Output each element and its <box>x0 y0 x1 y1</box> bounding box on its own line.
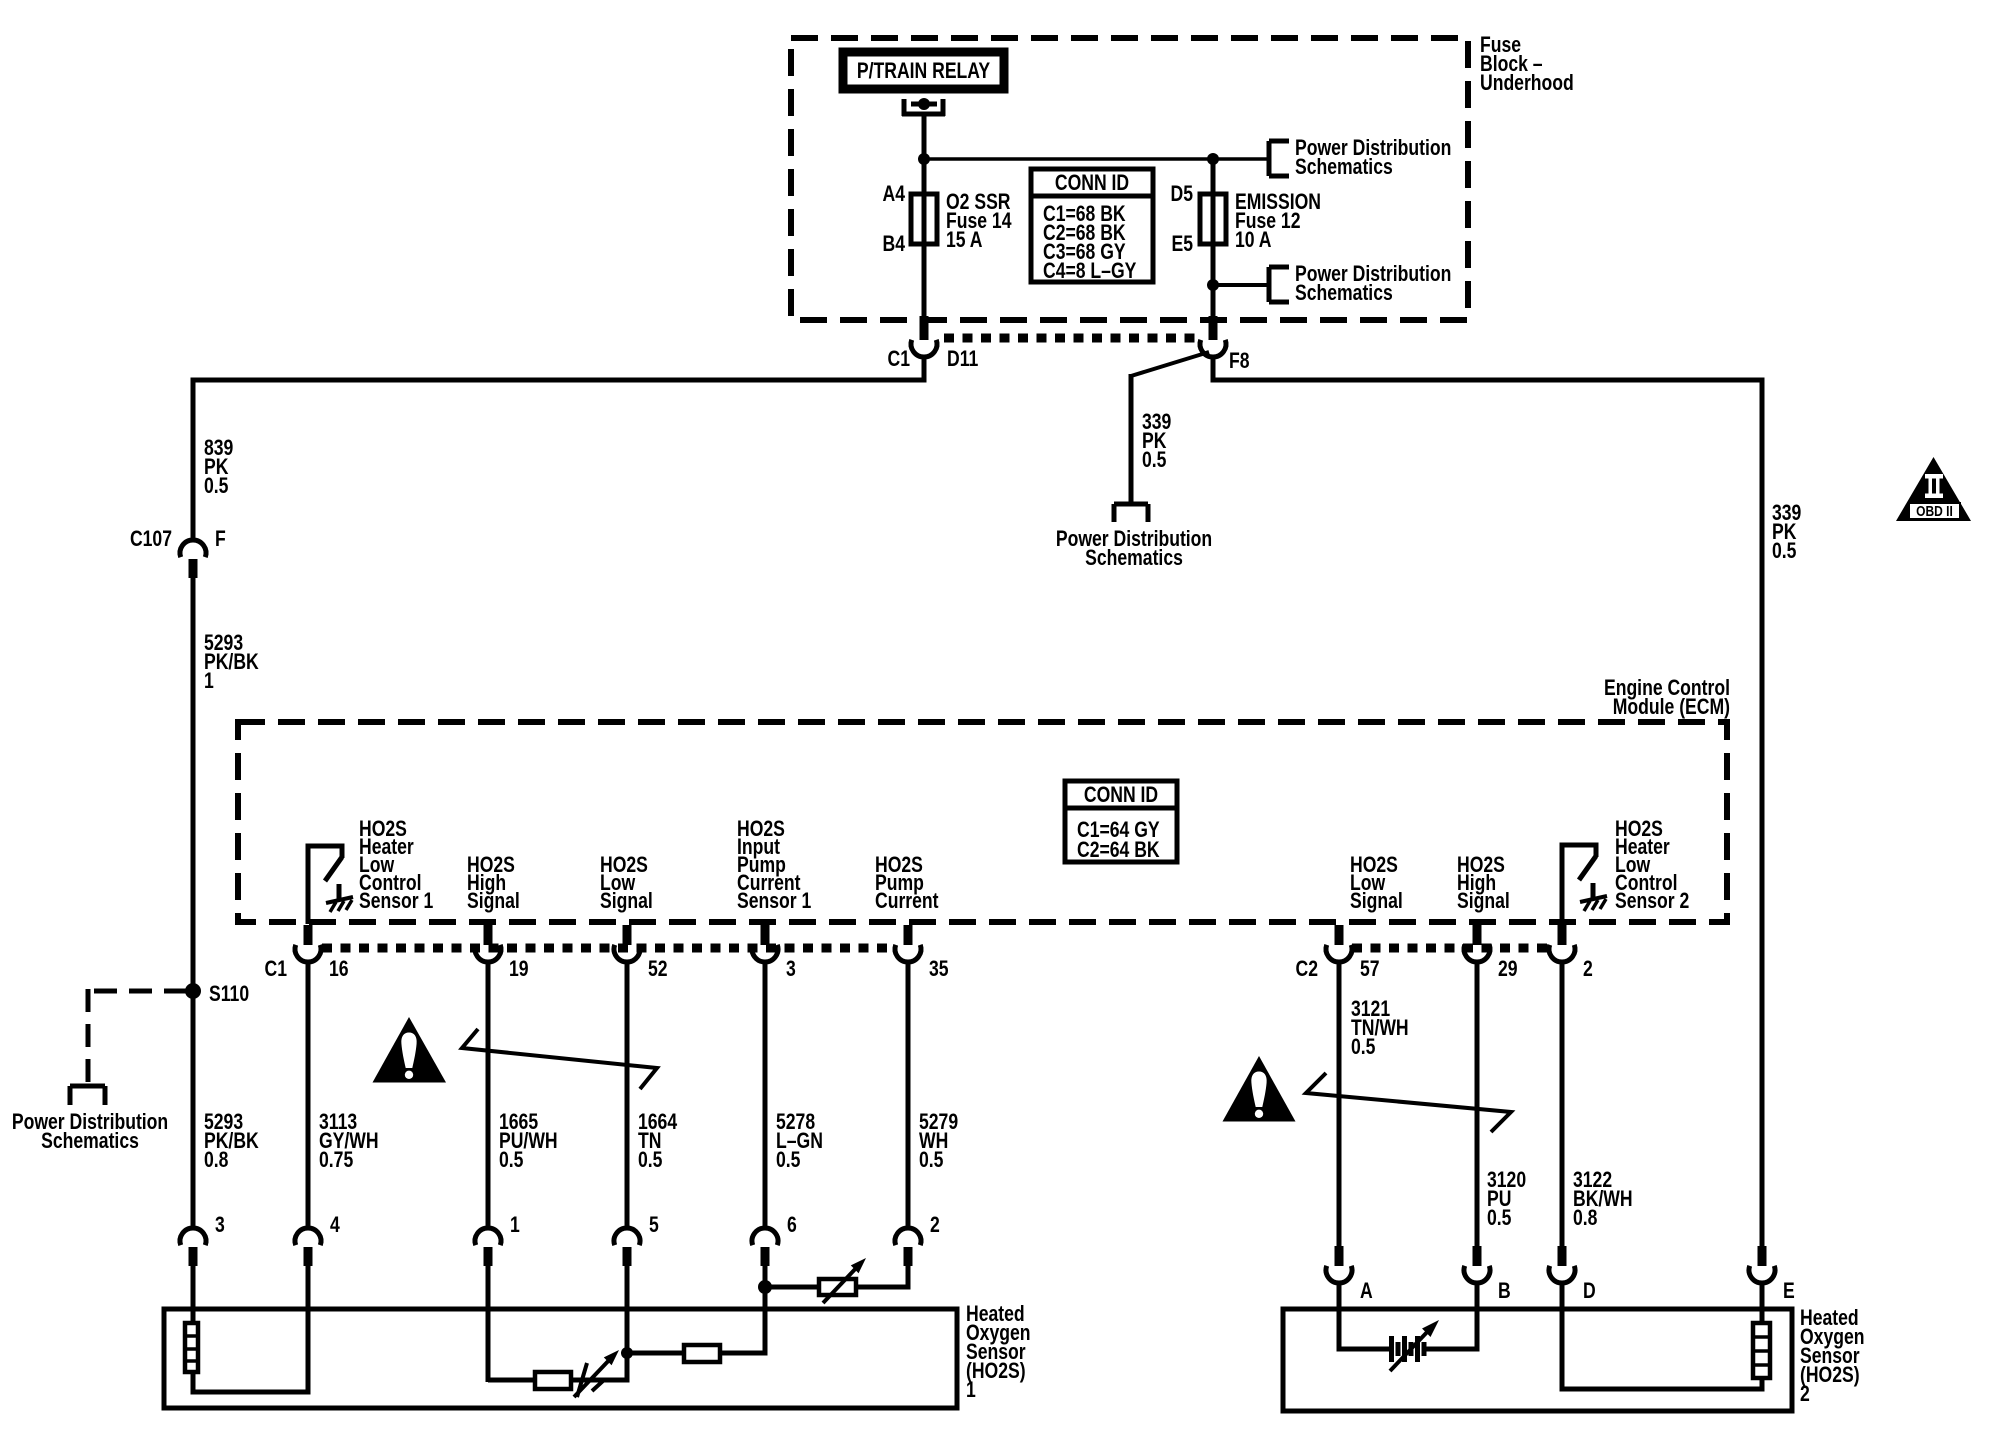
conn id table ecm box <box>1065 781 1177 862</box>
svg-text:F8: F8 <box>1229 349 1250 373</box>
ground symbol sensor2 driver <box>1591 883 1596 899</box>
svg-text:A: A <box>1360 1279 1373 1303</box>
ecm pin 19 connector <box>484 925 493 945</box>
sensor1 pin 5 connector <box>614 1228 640 1245</box>
ecm pin 57 connector <box>1335 925 1344 945</box>
wire heater to pin4 leg <box>193 1372 311 1392</box>
wire 3113 GY/WH pin16 to pin4 <box>306 961 311 1229</box>
wire battery cell to pinB <box>1427 1347 1478 1352</box>
svg-text:0.5: 0.5 <box>1142 448 1166 472</box>
wire fuse F14 to C1 connector <box>922 244 927 322</box>
node junction pin6 <box>758 1280 772 1294</box>
svg-text:0.5: 0.5 <box>919 1148 943 1172</box>
wire pin1 into sensor box <box>486 1265 491 1382</box>
ground symbol sensor1 driver <box>337 884 342 900</box>
svg-text:15 A: 15 A <box>946 228 982 252</box>
wire 339 PK vertical drop <box>1129 374 1134 504</box>
resistor R2 sensor1 <box>684 1345 720 1362</box>
svg-text:3: 3 <box>215 1213 225 1237</box>
ecm pin 16 connector <box>304 925 313 945</box>
svg-text:D5: D5 <box>1171 182 1193 206</box>
svg-text:0.8: 0.8 <box>204 1148 228 1172</box>
svg-text:B4: B4 <box>883 232 905 256</box>
wire 839 PK left vertical <box>191 380 196 541</box>
svg-text:C107: C107 <box>130 527 172 551</box>
svg-text:P/TRAIN RELAY: P/TRAIN RELAY <box>857 59 990 83</box>
svg-text:0.5: 0.5 <box>499 1148 523 1172</box>
wire F8 diagonal to 339 drop <box>1131 352 1209 376</box>
svg-text:57: 57 <box>1360 957 1380 981</box>
svg-text:C2=64 BK: C2=64 BK <box>1077 838 1160 862</box>
svg-text:C2: C2 <box>1296 957 1318 981</box>
svg-text:Schematics: Schematics <box>1295 155 1393 179</box>
heater element sensor 2 <box>1753 1323 1770 1378</box>
wire junction to resistor R2 <box>627 1351 684 1356</box>
node splice S110 <box>185 983 201 999</box>
resistor R1 sensor1 <box>535 1372 571 1389</box>
svg-text:OBD II: OBD II <box>1916 503 1953 520</box>
wire R2 to pin6 leg <box>720 1351 768 1356</box>
sensor1 pin 2 connector <box>895 1228 921 1245</box>
svg-text:Underhood: Underhood <box>1480 71 1574 95</box>
ecm pin 2 connector <box>1558 925 1567 945</box>
svg-text:3: 3 <box>786 957 796 981</box>
svg-text:0.5: 0.5 <box>1772 539 1796 563</box>
battery sensing cell sensor2 <box>1389 1336 1394 1362</box>
relay contact bracket <box>902 99 907 116</box>
wire tee to lower offpage <box>1213 283 1269 287</box>
svg-text:5: 5 <box>649 1213 659 1237</box>
wire pinE into sensor2 to heater <box>1760 1282 1765 1323</box>
sensor1 pin 4 connector <box>295 1228 321 1245</box>
variable arrow across R1 <box>574 1356 613 1397</box>
svg-text:Module (ECM): Module (ECM) <box>1613 695 1730 719</box>
svg-text:2: 2 <box>930 1213 940 1237</box>
svg-text:0.5: 0.5 <box>638 1148 662 1172</box>
wire bus horizontal <box>924 157 1269 161</box>
wire 3122 BK/WH pin2 to pinD <box>1560 961 1565 1250</box>
warning note arrow left <box>462 1029 657 1089</box>
svg-text:C1: C1 <box>265 957 287 981</box>
wire 5293 PK/BK 1 vertical <box>191 578 196 1229</box>
wire 339 PK right vertical <box>1760 380 1765 1248</box>
warning symbol triangle left <box>373 1017 447 1083</box>
svg-text:29: 29 <box>1498 957 1518 981</box>
heated oxygen sensor HO2S 2 box <box>1283 1309 1792 1411</box>
wire R1 to junction pin5 <box>571 1378 630 1383</box>
heater element sensor 1 <box>185 1323 198 1372</box>
svg-text:B: B <box>1498 1279 1511 1303</box>
svg-text:CONN ID: CONN ID <box>1084 783 1158 807</box>
relay K1 P/TRAIN RELAY box <box>843 52 1004 89</box>
wire 839 horizontal run left <box>191 378 927 383</box>
svg-text:2: 2 <box>1800 1382 1810 1406</box>
connector F8 <box>1209 316 1218 340</box>
svg-text:1: 1 <box>966 1378 976 1402</box>
svg-text:A4: A4 <box>883 182 905 206</box>
warning symbol triangle right <box>1223 1056 1296 1122</box>
offpage connector upper right <box>1267 141 1272 176</box>
wire pinD into sensor2 <box>1560 1282 1565 1392</box>
wire 5278 L-GN pin3 to pin6 <box>763 961 768 1229</box>
fuse F14 O2 SSR rect <box>911 194 937 244</box>
fuse block - underhood dashed box <box>791 38 1468 320</box>
dotted ecm connector line C1 row <box>322 944 894 953</box>
ecm pin 29 connector <box>1473 925 1482 945</box>
svg-text:Signal: Signal <box>467 889 520 913</box>
wire F8 down to right run <box>1211 356 1216 382</box>
wire pin5 into sensor box <box>625 1265 630 1353</box>
wire pinD to heater leg <box>1560 1387 1765 1392</box>
wire pin3 into sensor box <box>191 1265 196 1325</box>
ecm pin 52 connector <box>623 925 632 945</box>
svg-text:Signal: Signal <box>1457 889 1510 913</box>
wire 5279 WH pin35 to pin2 <box>906 961 911 1229</box>
svg-text:Signal: Signal <box>1350 889 1403 913</box>
svg-text:Sensor 2: Sensor 2 <box>1615 889 1689 913</box>
wire pinA into sensor2 <box>1337 1282 1342 1352</box>
node junction pin5 R1 <box>621 1347 633 1359</box>
connector C107 pin F <box>180 540 206 557</box>
svg-text:0.5: 0.5 <box>1351 1035 1375 1059</box>
svg-text:Signal: Signal <box>600 889 653 913</box>
svg-text:1: 1 <box>204 669 214 693</box>
driver switch HO2S heater low control sensor 2 <box>1562 845 1596 924</box>
svg-text:16: 16 <box>329 957 349 981</box>
offpage connector power distribution left <box>70 1084 105 1089</box>
svg-text:35: 35 <box>929 957 949 981</box>
sensor1 pin 1 connector <box>475 1228 501 1245</box>
svg-text:E5: E5 <box>1171 232 1193 256</box>
svg-text:CONN ID: CONN ID <box>1055 171 1129 195</box>
node bus junction at emission fuse <box>1207 153 1219 165</box>
svg-text:0.5: 0.5 <box>204 474 228 498</box>
sensor1 pin 3 connector <box>180 1228 206 1245</box>
svg-text:19: 19 <box>509 957 529 981</box>
wire bus to fuse F12 <box>1211 159 1216 194</box>
wire pinB into sensor2 <box>1475 1282 1480 1352</box>
driver switch HO2S heater low control sensor 1 <box>308 846 342 924</box>
svg-text:Schematics: Schematics <box>1295 281 1393 305</box>
sensor2 pin B connector <box>1473 1246 1482 1266</box>
svg-text:0.5: 0.5 <box>776 1148 800 1172</box>
offpage connector power distribution middle <box>1114 502 1148 507</box>
warning note arrow right <box>1306 1073 1511 1132</box>
ecm pin 3 connector <box>761 925 770 945</box>
wire heater2 bottom leg <box>1760 1378 1765 1389</box>
wire bus to fuse F14 <box>922 159 927 194</box>
svg-text:Current: Current <box>875 889 939 913</box>
wire pin6 to junction <box>763 1265 768 1290</box>
battery cell variable arrow <box>1390 1329 1430 1371</box>
wire 1664 TN pin52 to pin5 <box>625 961 630 1229</box>
sensor2 pin E connector <box>1758 1246 1767 1266</box>
conn id table top box <box>1031 169 1153 282</box>
wire 3120 PU pin29 to pinB <box>1475 961 1480 1250</box>
svg-text:6: 6 <box>787 1213 797 1237</box>
wire pin6 junction into box <box>763 1287 768 1355</box>
svg-text:10 A: 10 A <box>1235 228 1271 252</box>
variable resistor R3 between pin6 and pin2 <box>819 1279 856 1295</box>
svg-text:1: 1 <box>510 1213 520 1237</box>
svg-text:D11: D11 <box>947 347 978 371</box>
svg-text:2: 2 <box>1583 957 1593 981</box>
svg-text:E: E <box>1783 1279 1795 1303</box>
sensor1 pin 6 connector <box>752 1228 778 1245</box>
svg-text:Sensor 1: Sensor 1 <box>359 889 433 913</box>
wire 1665 PU/WH pin19 to pin1 <box>486 961 491 1229</box>
svg-text:0.75: 0.75 <box>319 1148 353 1172</box>
dotted ecm connector line C2 row <box>1352 944 1549 953</box>
svg-text:4: 4 <box>330 1213 340 1237</box>
svg-text:D: D <box>1583 1279 1596 1303</box>
wire 339 horizontal run right <box>1211 378 1765 383</box>
connector C1 D11 <box>920 316 929 340</box>
wire pin1 leg to resistor R1 <box>488 1378 535 1383</box>
svg-text:Schematics: Schematics <box>41 1129 139 1153</box>
node bus junction at relay wire <box>918 153 930 165</box>
wire fuse F12 to F8 connector <box>1211 244 1216 322</box>
ecm pin 35 connector <box>904 925 913 945</box>
heated oxygen sensor HO2S 1 box <box>164 1309 957 1408</box>
svg-text:C4=8 L–GY: C4=8 L–GY <box>1043 259 1136 283</box>
svg-text:S110: S110 <box>209 982 249 1006</box>
wire pin2 to variable resistor <box>906 1265 911 1290</box>
wire dashed branch from S110 <box>86 989 187 994</box>
symbol OBD II triangle <box>1896 457 1971 521</box>
sensor2 pin A connector <box>1335 1246 1344 1266</box>
wire from relay to bus <box>922 114 927 161</box>
svg-text:Schematics: Schematics <box>1085 546 1183 570</box>
dotted connector line C1-D11 to F8 <box>944 334 1200 343</box>
wire 3121 TN/WH pin57 to pinA <box>1337 961 1342 1250</box>
svg-text:0.8: 0.8 <box>1573 1206 1597 1230</box>
fuse F12 EMISSION rect <box>1200 194 1226 244</box>
node junction lower tee <box>1207 279 1219 291</box>
svg-text:0.5: 0.5 <box>1487 1206 1511 1230</box>
offpage connector lower right <box>1267 267 1272 302</box>
wire pinA to battery cell <box>1339 1347 1391 1352</box>
sensor2 pin D connector <box>1558 1246 1567 1266</box>
svg-text:Sensor 1: Sensor 1 <box>737 889 811 913</box>
wire pin4 into sensor box <box>306 1265 311 1394</box>
svg-text:F: F <box>215 527 226 551</box>
svg-text:52: 52 <box>648 957 668 981</box>
engine control module ECM dashed box <box>238 722 1727 922</box>
svg-text:C1: C1 <box>888 347 910 371</box>
wire C1 down to left run <box>922 356 927 382</box>
